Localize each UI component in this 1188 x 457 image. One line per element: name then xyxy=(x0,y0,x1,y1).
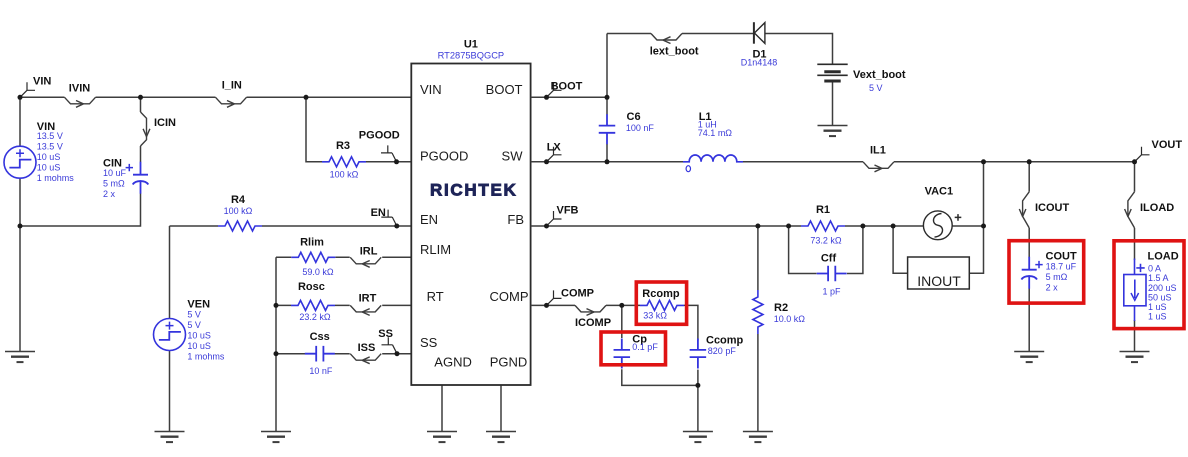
svg-text:0.1 pF: 0.1 pF xyxy=(632,342,658,352)
ground COUT xyxy=(1014,352,1044,363)
node tick SS xyxy=(382,337,398,353)
probe I_IN xyxy=(216,97,247,107)
wire ICOUT column xyxy=(1028,162,1030,258)
svg-text:EN: EN xyxy=(371,207,386,219)
svg-text:SW: SW xyxy=(502,148,524,163)
svg-text:ICOUT: ICOUT xyxy=(1035,202,1070,214)
svg-text:10 uS: 10 uS xyxy=(187,331,211,341)
wire CIN top column xyxy=(140,97,142,162)
current source LOAD plus sign xyxy=(1136,264,1144,272)
resistor Rlim xyxy=(291,252,335,262)
wire input rail VIN to U1 xyxy=(20,96,411,98)
probe IRT xyxy=(350,305,381,315)
svg-text:1 mohms: 1 mohms xyxy=(187,352,225,362)
svg-text:5 mΩ: 5 mΩ xyxy=(103,178,125,188)
probe ISS xyxy=(350,354,381,364)
svg-text:5 mΩ: 5 mΩ xyxy=(1046,272,1068,282)
wire COUT ground stem xyxy=(1028,289,1030,352)
svg-text:5 V: 5 V xyxy=(869,83,883,93)
voltage source VIN xyxy=(4,146,36,178)
wire COMP node to Rcomp xyxy=(622,304,640,306)
svg-text:FB: FB xyxy=(507,212,524,227)
svg-text:COMP: COMP xyxy=(490,289,529,304)
inductor L1 phase marker xyxy=(686,166,690,172)
svg-text:23.2 kΩ: 23.2 kΩ xyxy=(299,312,331,322)
svg-text:50 uS: 50 uS xyxy=(1148,292,1172,302)
wire VIN source top lead xyxy=(19,97,21,146)
svg-text:Rosc: Rosc xyxy=(298,281,325,293)
svg-text:PGND: PGND xyxy=(490,354,528,369)
wire RLIM row xyxy=(276,256,411,258)
svg-text:R3: R3 xyxy=(336,140,350,152)
svg-text:ICIN: ICIN xyxy=(154,117,176,129)
wire ILOAD column xyxy=(1134,162,1136,260)
svg-text:1 pF: 1 pF xyxy=(822,287,841,297)
svg-text:1 mohms: 1 mohms xyxy=(37,173,75,183)
node tick EN xyxy=(381,210,397,226)
ground Vext_boot xyxy=(818,126,848,137)
wire VAC INOUT left branch xyxy=(893,226,908,273)
svg-text:1 uS: 1 uS xyxy=(1148,312,1167,322)
wire bias bus vertical xyxy=(275,257,277,431)
resistor R4 xyxy=(218,221,262,231)
capacitor COUT xyxy=(1021,257,1037,289)
svg-text:Vext_boot: Vext_boot xyxy=(853,69,906,81)
capacitor CIN xyxy=(133,162,149,194)
probe ILOAD xyxy=(1125,192,1135,228)
op-chip U1 RT2875BQGCP body xyxy=(411,64,530,386)
svg-text:73.2 kΩ: 73.2 kΩ xyxy=(810,235,842,245)
inductor L1 xyxy=(683,155,743,162)
svg-text:PGOOD: PGOOD xyxy=(420,148,468,163)
voltage source VEN xyxy=(154,319,186,351)
node tick VOUT xyxy=(1135,147,1150,162)
wire R3 branch from VIN rail xyxy=(306,97,411,162)
wire Ccomp ground stem xyxy=(697,385,699,431)
svg-text:R1: R1 xyxy=(816,204,830,216)
ground AGND xyxy=(427,432,457,443)
svg-text:RLIM: RLIM xyxy=(420,242,451,257)
svg-text:10 uS: 10 uS xyxy=(37,163,61,173)
probe ICOMP xyxy=(575,305,606,315)
ground VEN xyxy=(155,432,185,443)
svg-text:R4: R4 xyxy=(231,194,246,206)
wire VEN column xyxy=(169,226,171,432)
ground bias bus xyxy=(261,432,291,443)
resistor Rcomp xyxy=(640,300,684,310)
svg-text:VIN: VIN xyxy=(420,82,442,97)
svg-text:100 nF: 100 nF xyxy=(626,123,655,133)
wire boot column C6 xyxy=(606,34,608,162)
svg-text:0 A: 0 A xyxy=(1148,264,1161,274)
source VAC1 xyxy=(923,211,961,240)
probe IRL xyxy=(350,257,381,267)
svg-text:820 pF: 820 pF xyxy=(708,346,737,356)
svg-text:SS: SS xyxy=(378,328,393,340)
capacitor C6 xyxy=(599,114,616,144)
svg-text:PGOOD: PGOOD xyxy=(359,129,400,141)
highlight box Cp xyxy=(601,332,666,365)
junction dots left area xyxy=(18,95,400,356)
svg-text:5 V: 5 V xyxy=(187,320,201,330)
svg-text:100 kΩ: 100 kΩ xyxy=(330,170,359,180)
svg-text:RICHTEK: RICHTEK xyxy=(430,181,517,200)
svg-text:2 x: 2 x xyxy=(103,189,116,199)
block INOUT xyxy=(908,257,970,289)
svg-text:BOOT: BOOT xyxy=(551,81,583,93)
wire BOOT row xyxy=(531,96,607,98)
svg-text:10 uS: 10 uS xyxy=(187,341,211,351)
capacitor COUT plus sign xyxy=(1035,261,1042,268)
svg-text:LX: LX xyxy=(547,142,562,154)
probe lext_boot xyxy=(651,34,682,44)
probe ICIN xyxy=(141,112,150,146)
highlight box COUT xyxy=(1009,241,1084,303)
svg-text:ILOAD: ILOAD xyxy=(1140,202,1174,214)
svg-text:R2: R2 xyxy=(774,302,788,314)
svg-text:200 uS: 200 uS xyxy=(1148,283,1177,293)
svg-text:Rlim: Rlim xyxy=(300,237,324,249)
svg-text:59.0 kΩ: 59.0 kΩ xyxy=(302,267,334,277)
svg-text:VOUT: VOUT xyxy=(1152,139,1183,151)
svg-text:IVIN: IVIN xyxy=(69,83,90,95)
capacitor Css xyxy=(305,346,335,362)
probe IL1 xyxy=(863,162,894,172)
svg-text:Css: Css xyxy=(310,331,330,343)
wire LX output rail xyxy=(531,161,1135,163)
svg-text:2 x: 2 x xyxy=(1046,282,1059,292)
capacitor Cff xyxy=(817,266,847,282)
probe IVIN xyxy=(65,97,96,107)
node tick LX xyxy=(547,147,562,162)
svg-text:1 uS: 1 uS xyxy=(1148,302,1167,312)
wire Ccomp bottom xyxy=(697,370,699,386)
wire COMP row xyxy=(531,304,622,306)
wire boot top rail xyxy=(607,33,753,35)
wire Cp column xyxy=(622,305,698,385)
svg-text:VFB: VFB xyxy=(557,205,579,217)
wire VAC INOUT right branch xyxy=(969,162,983,273)
wire left ground stem xyxy=(19,226,21,352)
svg-text:ISS: ISS xyxy=(358,342,376,354)
svg-text:13.5 V: 13.5 V xyxy=(37,142,63,152)
diode D1 xyxy=(754,22,765,44)
svg-text:RT2875BQGCP: RT2875BQGCP xyxy=(438,51,505,61)
svg-text:lext_boot: lext_boot xyxy=(650,45,699,57)
highlight box Rcomp xyxy=(636,282,686,324)
svg-text:VAC1: VAC1 xyxy=(925,185,954,197)
capacitor CIN plus sign xyxy=(126,164,133,171)
wire Rcomp to Ccomp corner xyxy=(684,305,698,340)
svg-text:10 uS: 10 uS xyxy=(37,152,61,162)
svg-text:IRT: IRT xyxy=(359,293,377,305)
wire VFB row xyxy=(531,225,984,227)
svg-text:10 uF: 10 uF xyxy=(103,168,127,178)
svg-text:10 nF: 10 nF xyxy=(309,366,333,376)
svg-text:74.1 mΩ: 74.1 mΩ xyxy=(698,128,733,138)
svg-text:LOAD: LOAD xyxy=(1148,251,1179,263)
svg-text:COMP: COMP xyxy=(561,288,594,300)
wire VIN source bottom lead xyxy=(19,178,21,226)
wire diode to battery xyxy=(765,34,833,64)
svg-text:C6: C6 xyxy=(627,111,641,123)
junction dots right area xyxy=(544,95,1137,388)
svg-text:IL1: IL1 xyxy=(870,145,886,157)
wire EN rail with R4 xyxy=(170,225,412,227)
probe ICOUT xyxy=(1019,192,1029,228)
battery Vext_boot xyxy=(817,64,847,81)
svg-text:BOOT: BOOT xyxy=(486,82,523,97)
svg-text:SS: SS xyxy=(420,335,438,350)
svg-text:VIN: VIN xyxy=(33,76,51,88)
node tick PGOOD xyxy=(381,145,397,161)
node tick VIN xyxy=(20,82,35,97)
wire PGND stub xyxy=(500,385,502,432)
wire RT row xyxy=(276,304,411,306)
node tick VFB xyxy=(547,211,562,226)
svg-text:Rcomp: Rcomp xyxy=(642,288,680,300)
wire AGND stub xyxy=(441,385,443,432)
resistor R2 xyxy=(753,290,763,334)
wire LOAD ground stem xyxy=(1134,320,1136,352)
svg-text:5 V: 5 V xyxy=(187,310,201,320)
wire battery to ground xyxy=(832,82,834,126)
capacitor Ccomp xyxy=(690,339,707,369)
ground R2 xyxy=(743,432,773,443)
svg-text:INOUT: INOUT xyxy=(917,273,961,289)
highlight box LOAD xyxy=(1114,241,1184,329)
svg-text:10.0 kΩ: 10.0 kΩ xyxy=(774,314,806,324)
svg-text:IRL: IRL xyxy=(360,245,378,257)
svg-text:100 kΩ: 100 kΩ xyxy=(224,206,253,216)
svg-text:EN: EN xyxy=(420,212,438,227)
wire SS row xyxy=(276,353,411,355)
svg-text:AGND: AGND xyxy=(434,354,472,369)
current source LOAD xyxy=(1124,259,1146,322)
svg-text:D1n4148: D1n4148 xyxy=(741,58,778,68)
svg-text:18.7 uF: 18.7 uF xyxy=(1046,261,1077,271)
wire R2 column xyxy=(757,226,759,432)
svg-text:33 kΩ: 33 kΩ xyxy=(643,310,667,320)
resistor R1 xyxy=(801,221,845,231)
ground left rail xyxy=(5,352,35,363)
wire Cff parallel branch xyxy=(789,226,863,274)
resistor R3 xyxy=(322,157,366,167)
node tick COMP xyxy=(547,290,562,305)
svg-text:1.5 A: 1.5 A xyxy=(1148,273,1169,283)
ground Ccomp xyxy=(683,432,713,443)
svg-text:RT: RT xyxy=(427,289,444,304)
node tick BOOT xyxy=(547,82,562,97)
svg-text:U1: U1 xyxy=(464,39,478,51)
svg-text:Ccomp: Ccomp xyxy=(706,335,744,347)
capacitor Cp xyxy=(614,339,631,369)
wire ground rail VIN- to CIN xyxy=(20,194,141,227)
resistor Rosc xyxy=(291,300,335,310)
svg-text:Cff: Cff xyxy=(821,253,837,265)
svg-text:13.5 V: 13.5 V xyxy=(37,131,63,141)
svg-text:ICOMP: ICOMP xyxy=(575,317,611,329)
svg-text:I_IN: I_IN xyxy=(222,80,242,92)
ground PGND xyxy=(486,432,516,443)
ground LOAD xyxy=(1120,352,1150,363)
